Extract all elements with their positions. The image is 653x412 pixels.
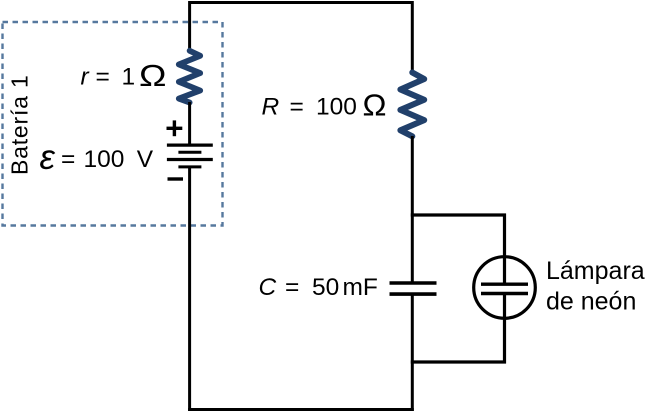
wire R to capacitor <box>411 136 414 282</box>
neon lamp lower lead <box>503 294 506 364</box>
wire right top (to resistor R) <box>411 1 414 74</box>
svg-text:de neón: de neón <box>546 287 636 315</box>
label ε = 100 V <box>40 138 154 177</box>
svg-text:1: 1 <box>122 64 136 91</box>
svg-text:50: 50 <box>312 274 339 301</box>
wire junction lower (neon branch bottom) <box>411 360 506 363</box>
capacitor C plates <box>390 283 437 294</box>
svg-text:Ω: Ω <box>139 58 167 93</box>
svg-text:=: = <box>290 94 304 121</box>
svg-text:100: 100 <box>316 94 357 121</box>
svg-text:Lámpara: Lámpara <box>546 257 645 285</box>
label r = 1 Ω <box>81 58 167 93</box>
svg-text:R: R <box>262 94 280 121</box>
svg-text:=: = <box>96 64 110 91</box>
battery minus sign <box>168 177 184 180</box>
svg-text:Ω: Ω <box>363 88 387 123</box>
resistor r <box>179 51 200 103</box>
wire battery to bottom <box>188 167 191 411</box>
wire junction upper (to neon branch) <box>411 213 506 216</box>
wire neon branch upper lead <box>503 214 506 285</box>
svg-text:V: V <box>137 146 154 173</box>
label Lámpara de neón <box>546 257 645 315</box>
neon lamp circle <box>474 257 536 319</box>
battery dashed box <box>3 22 223 226</box>
battery B1 <box>167 145 213 167</box>
neon lamp electrodes <box>481 284 528 293</box>
wire r to battery <box>188 102 191 146</box>
resistor R <box>400 73 424 137</box>
svg-text:Batería 1: Batería 1 <box>6 74 32 175</box>
label R = 100 Ω <box>262 88 387 123</box>
svg-text:C: C <box>259 274 277 301</box>
wire bottom <box>188 408 414 411</box>
label C = 50 mF <box>259 274 378 301</box>
svg-text:100: 100 <box>84 146 125 173</box>
svg-text:ε: ε <box>40 138 56 177</box>
wire capacitor to bottom <box>411 295 414 412</box>
wire left top (to resistor r) <box>188 1 191 52</box>
svg-text:r: r <box>81 64 90 91</box>
svg-text:mF: mF <box>343 274 378 301</box>
battery plus sign <box>167 120 183 136</box>
wire top <box>190 1 413 4</box>
svg-text:=: = <box>61 146 75 173</box>
svg-text:=: = <box>285 274 299 301</box>
